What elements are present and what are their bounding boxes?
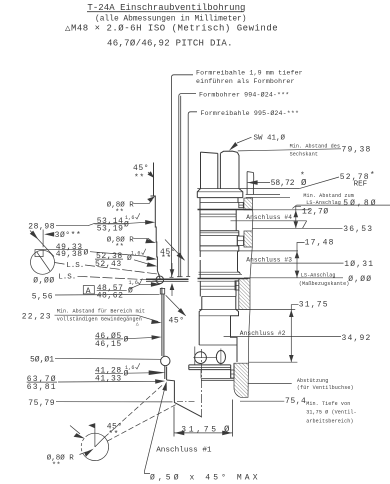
svg-text:Anschluss #2: Anschluss #2 — [240, 330, 286, 337]
svg-text:(alle Abmessungen in Millimete: (alle Abmessungen in Millimeter) — [95, 15, 247, 24]
svg-text:Sechskant: Sechskant — [290, 152, 318, 158]
svg-text:**: ** — [52, 462, 61, 470]
svg-text:46,7Ø/46,92 PITCH DIA.: 46,7Ø/46,92 PITCH DIA. — [107, 38, 233, 48]
svg-text:53,19: 53,19 — [97, 225, 124, 234]
svg-text:L.S.: L.S. — [66, 262, 84, 270]
svg-text:49,38: 49,38 — [56, 250, 83, 259]
svg-text:75,4: 75,4 — [285, 397, 306, 406]
svg-text:LS-Anschlag: LS-Anschlag — [301, 273, 336, 279]
svg-text:1,6: 1,6 — [129, 280, 138, 286]
svg-text:Formreibahle 995-Ø24-***: Formreibahle 995-Ø24-*** — [201, 109, 300, 117]
svg-text:45°: 45° — [133, 164, 149, 173]
svg-text:Ø: Ø — [124, 220, 129, 229]
svg-text:*: * — [300, 172, 305, 181]
svg-text:1,6: 1,6 — [125, 365, 134, 371]
svg-text:△M48 × 2.Ø-6H ISO (Metrisch) G: △M48 × 2.Ø-6H ISO (Metrisch) Gewinde — [65, 24, 278, 34]
svg-text:A: A — [86, 287, 91, 296]
svg-text:5Ø,Ø1: 5Ø,Ø1 — [30, 356, 54, 365]
svg-text:3Ø°**: 3Ø°** — [55, 231, 82, 240]
svg-text:1Ø,31: 1Ø,31 — [344, 260, 374, 269]
svg-text:Formreibahle 1,9 mm tiefer: Formreibahle 1,9 mm tiefer — [196, 70, 303, 77]
svg-text:**: ** — [134, 174, 145, 183]
svg-text:45°: 45° — [169, 317, 185, 326]
svg-text:*: * — [370, 171, 375, 180]
svg-text:1,6: 1,6 — [125, 215, 134, 221]
svg-text:Ø: Ø — [124, 370, 129, 379]
svg-text:28,98: 28,98 — [28, 222, 55, 231]
svg-text:5,56: 5,56 — [32, 292, 53, 301]
svg-text:5Ø,8Ø: 5Ø,8Ø — [343, 199, 378, 208]
svg-text:31,75 Ø (Ventil-: 31,75 Ø (Ventil- — [306, 409, 357, 416]
svg-text:22,23: 22,23 — [22, 312, 52, 321]
svg-text:1,6: 1,6 — [131, 251, 140, 257]
svg-text:Anschluss #3: Anschluss #3 — [246, 256, 292, 263]
svg-text:**: ** — [161, 254, 172, 263]
svg-text:12,7Ø: 12,7Ø — [302, 208, 329, 217]
svg-text:36,53: 36,53 — [343, 225, 373, 234]
svg-text:Anschluss #4: Anschluss #4 — [246, 214, 292, 221]
svg-text:SW 41,Ø: SW 41,Ø — [254, 134, 286, 143]
svg-text:17,48: 17,48 — [305, 239, 335, 248]
svg-text:31,75: 31,75 — [181, 425, 219, 434]
svg-text:Ø: Ø — [124, 335, 129, 344]
svg-text:79,38: 79,38 — [342, 145, 372, 154]
svg-text:Min. Abstand für Bereich mit: Min. Abstand für Bereich mit — [57, 308, 145, 314]
svg-text:63,81: 63,81 — [27, 383, 57, 392]
svg-text:48,62: 48,62 — [97, 291, 124, 300]
svg-text:Ø: Ø — [224, 425, 230, 435]
svg-text:Ø,5Ø x 45° MAX: Ø,5Ø x 45° MAX — [150, 473, 261, 482]
svg-text:52,43: 52,43 — [95, 260, 122, 269]
svg-text:REF: REF — [354, 180, 368, 188]
svg-text:Ø,ØØ: Ø,ØØ — [348, 275, 372, 284]
svg-text:Formbohrer 994-Ø24-***: Formbohrer 994-Ø24-*** — [199, 91, 289, 99]
svg-text:34,92: 34,92 — [342, 334, 372, 343]
svg-text:vollständigen Gewindegängen: vollständigen Gewindegängen — [57, 316, 142, 322]
svg-text:46,15: 46,15 — [95, 340, 122, 349]
svg-text:Ø: Ø — [84, 248, 89, 257]
svg-text:Abstützung: Abstützung — [297, 378, 329, 384]
svg-text:41,33: 41,33 — [95, 374, 122, 383]
svg-text:31,75: 31,75 — [299, 300, 329, 309]
svg-text:L.S.: L.S. — [58, 273, 76, 281]
svg-text:arbeitsbereich): arbeitsbereich) — [306, 419, 353, 425]
svg-text:Min. Tiefe von: Min. Tiefe von — [306, 401, 350, 407]
svg-text:**: ** — [115, 243, 124, 251]
svg-text:Ø: Ø — [128, 286, 133, 295]
svg-text:(für Ventilbuchse): (für Ventilbuchse) — [297, 385, 354, 391]
svg-text:**: ** — [108, 430, 119, 439]
svg-text:Ø,ØØ: Ø,ØØ — [33, 277, 54, 286]
svg-text:einführen als Formbohrer: einführen als Formbohrer — [196, 78, 295, 85]
svg-text:Anschluss #1: Anschluss #1 — [156, 447, 212, 455]
svg-text:75,79: 75,79 — [28, 399, 55, 408]
svg-text:(Maßbezugskante): (Maßbezugskante) — [299, 281, 350, 287]
svg-text:58,72: 58,72 — [271, 179, 295, 188]
svg-text:Min. Abstand des: Min. Abstand des — [290, 144, 341, 150]
svg-text:LS-Anschlag: LS-Anschlag — [306, 200, 341, 206]
svg-text:**: ** — [115, 209, 124, 217]
